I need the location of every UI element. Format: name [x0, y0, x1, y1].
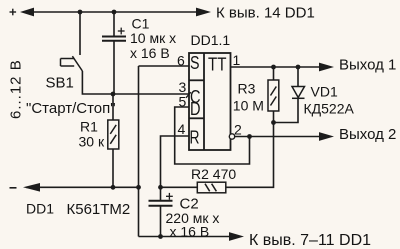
- svg-text:DD1.1: DD1.1: [191, 32, 231, 48]
- wire node B to R2: [161, 186, 198, 188]
- svg-text:2: 2: [234, 122, 242, 138]
- svg-text:R1: R1: [80, 119, 98, 135]
- svg-text:1: 1: [233, 52, 241, 68]
- C1 polarity plus: [118, 28, 125, 35]
- pin 3 dynamic input chevron: [186, 92, 191, 98]
- wire C1 top lead: [113, 12, 115, 37]
- wire S to minus rail vertical: [138, 66, 140, 187]
- svg-text:TT: TT: [208, 55, 227, 75]
- wire VD1 top lead: [297, 67, 299, 87]
- wire SB1 top lead: [79, 12, 81, 55]
- wire R3 bottom lead: [273, 111, 275, 123]
- wire SB1 bottom lead: [82, 71, 113, 94]
- svg-text:10 М: 10 М: [233, 98, 264, 114]
- resistor R2: [197, 182, 226, 193]
- arrow to pins 7-11 DD1: [229, 232, 244, 241]
- wire top + rail: [28, 11, 200, 13]
- node top rail / C1: [112, 10, 117, 15]
- svg-text:5: 5: [179, 94, 187, 110]
- resistor R3: [268, 80, 279, 111]
- svg-text:SB1: SB1: [46, 75, 74, 92]
- svg-text:6...12 В: 6...12 В: [8, 59, 25, 119]
- wire R1 bottom lead: [112, 149, 114, 187]
- svg-text:4: 4: [178, 121, 186, 137]
- wire node A to C input: [113, 93, 189, 95]
- wire R3 bottom to VD1 bottom: [274, 98, 299, 123]
- wire feedback Q2 to D: [175, 107, 250, 164]
- node minus rail corner: [136, 185, 141, 190]
- svg-text:VD1: VD1: [311, 84, 338, 100]
- node R3 bottom: [271, 120, 276, 125]
- wire S input: [139, 65, 190, 67]
- svg-text:Выход 2: Выход 2: [339, 126, 396, 143]
- wire minus rail: [26, 186, 139, 188]
- svg-text:R3: R3: [238, 81, 256, 97]
- svg-text:КД522А: КД522А: [304, 101, 355, 117]
- wire pin 1 output: [231, 66, 321, 68]
- svg-text:D: D: [190, 99, 201, 119]
- svg-text:х 16 В: х 16 В: [170, 224, 210, 240]
- switch SB1: [61, 56, 83, 71]
- pin 2 inversion bubble: [229, 134, 234, 139]
- wire R1 top lead: [112, 94, 114, 120]
- arrow supply plus left: [20, 8, 34, 17]
- wire C2 bottom lead: [160, 206, 162, 237]
- svg-text:Выход 1: Выход 1: [339, 57, 396, 74]
- arrow to pin 14 DD1: [196, 8, 211, 17]
- C2 polarity plus: [166, 193, 173, 200]
- svg-text:DD1: DD1: [26, 201, 54, 217]
- label minus supply: [10, 187, 17, 189]
- capacitor C1: [102, 37, 126, 41]
- arrow supply minus left: [23, 183, 40, 192]
- wire C2 top lead: [160, 187, 162, 200]
- svg-text:R2 470: R2 470: [191, 166, 236, 182]
- label plus supply: [10, 9, 17, 16]
- node top rail / SB1: [78, 10, 83, 15]
- svg-text:"Старт/Стоп": "Старт/Стоп": [26, 100, 116, 117]
- svg-text:S: S: [190, 53, 200, 73]
- node C2 / bottom rail: [158, 234, 163, 239]
- node pin1 / R3: [271, 65, 276, 70]
- svg-text:R: R: [190, 128, 200, 148]
- op-amp U1 trigger DD1.1 box: [189, 53, 231, 150]
- svg-text:К561ТМ2: К561ТМ2: [67, 201, 131, 218]
- svg-text:К выв. 7–11 DD1: К выв. 7–11 DD1: [249, 232, 371, 249]
- arrow output 1: [319, 63, 334, 72]
- svg-text:30 к: 30 к: [79, 134, 105, 150]
- svg-text:6: 6: [177, 53, 185, 69]
- wire C1 bottom lead: [113, 41, 115, 94]
- node R1 / minus rail: [111, 185, 116, 190]
- wire R3 top lead: [273, 67, 275, 80]
- wire R input (pin 4): [161, 136, 190, 187]
- node pin2 / feedback: [247, 134, 252, 139]
- svg-text:10 мк х: 10 мк х: [130, 30, 176, 46]
- wire pin 2 output: [235, 136, 320, 138]
- wire minus rail down to bottom rail: [138, 187, 140, 236]
- node B: [158, 185, 163, 190]
- diode VD1: [292, 87, 305, 99]
- node A: [111, 92, 116, 97]
- capacitor C2: [149, 201, 173, 206]
- wire bottom rail: [139, 236, 232, 238]
- resistor R1: [108, 120, 119, 149]
- node pin1 / VD1: [296, 65, 301, 70]
- svg-text:К выв. 14 DD1: К выв. 14 DD1: [216, 5, 315, 22]
- svg-text:х 16 В: х 16 В: [130, 45, 170, 61]
- wire R2 right lead up to R3/VD1: [226, 123, 274, 188]
- arrow output 2: [319, 132, 334, 141]
